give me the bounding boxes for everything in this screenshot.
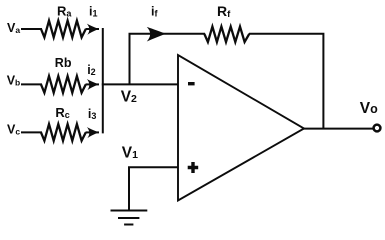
current arrow if — [147, 27, 166, 42]
output wire — [303, 128, 374, 130]
current arrow i1 — [87, 24, 99, 35]
wire vb to Rb — [21, 83, 42, 85]
resistor Rc — [41, 124, 86, 141]
output terminal circle — [374, 125, 381, 132]
op-amp inverting pin minus sign — [188, 82, 195, 85]
op-amp non-inverting pin plus sign — [188, 162, 199, 173]
wire ground to op-amp non-inverting input — [129, 167, 179, 210]
svg-text:Rb: Rb — [55, 56, 72, 70]
current arrow i2 — [87, 79, 99, 90]
wire vc to Rc — [21, 131, 42, 133]
current arrow i3 — [87, 127, 99, 138]
wire va to Ra — [21, 28, 42, 30]
svg-text:Vo: Vo — [360, 100, 378, 117]
summing node vertical wire — [102, 28, 104, 133]
wire Rb to node — [86, 83, 100, 85]
feedback branch wire up from node — [130, 34, 206, 85]
wire Rc to node — [86, 131, 100, 133]
wire Ra to node — [86, 28, 100, 30]
feedback wire Rf to output — [249, 34, 323, 130]
resistor Rf — [204, 27, 249, 42]
op-amp U1 — [178, 55, 304, 201]
ground — [111, 211, 148, 225]
wire node to op-amp inverting input — [102, 83, 179, 85]
resistor Rb — [41, 76, 86, 93]
resistor Ra — [41, 21, 86, 38]
